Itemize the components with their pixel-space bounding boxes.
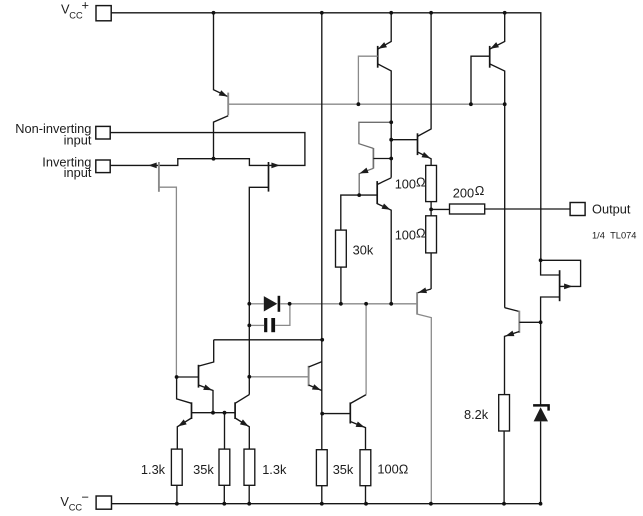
svg-text:Output: Output [592,201,631,216]
label 200ohm [453,183,485,201]
svg-text:35k: 35k [193,462,214,477]
transistor Q1 base bar [227,93,229,116]
transistor Tg base bar [234,402,236,419]
svg-text:+: + [82,0,89,13]
resistor 35k right [316,450,327,486]
wire 8.2k to bottom rail [503,431,505,504]
compensation capacitor C1 [264,318,267,332]
JFET J1 drain (grey) [159,187,177,377]
resistor R2 100ohm [426,216,437,253]
wire Td collector rail [214,339,322,341]
transistor Q1 emitter lead [214,13,228,97]
svg-text:1.3k: 1.3k [141,462,166,477]
JFET J2 gate arrow [271,163,280,169]
Non-inverting input terminal box [96,126,110,139]
svg-text:input: input [64,165,92,180]
transistor Ta emitter [359,168,373,195]
mirror base rail [192,412,236,414]
wires resistors to bottom rail [177,485,366,503]
transistor Ti base lead (grey) [249,376,308,378]
transistor Q1 collector [214,116,229,159]
resistor 8.2k [499,395,510,431]
transistor Td base bar [198,365,200,388]
transistor Q3 base bar [489,46,491,68]
output JFET J3 drain lead [541,260,560,275]
Output terminal box [570,203,585,216]
transistor Tj base lead [322,413,350,415]
bottom Vcc- rail [112,503,542,505]
JFET J1 gate arrow [148,163,157,169]
Vcc+ label [61,0,89,21]
transistor Tb base bar [376,181,378,204]
transistor Tj base bar [349,402,351,423]
diode D1 anode wire (grey) [249,303,263,305]
transistor Q6 collector [418,13,432,137]
resistor 200ohm [450,204,485,214]
wire non-inverting input wrap to J2 gate [110,133,305,166]
transistor Ta base lead [373,158,391,160]
transistor Q6 base lead [391,139,417,141]
transistor Q6 base bar [417,133,419,155]
transistor Tj collector [350,395,366,404]
transistor Ti collector [309,362,323,368]
transistor Td base lead [177,376,199,378]
svg-text:35k: 35k [333,462,354,477]
output JFET J3 channel bar [559,270,561,301]
Inverting input label [42,155,92,180]
output JFET J3 gate wrap [541,260,581,286]
svg-text:100Ω: 100Ω [377,462,408,477]
resistor 30k [336,230,347,267]
svg-text:8.2k: 8.2k [464,407,489,422]
bias rail (grey) [228,103,505,105]
transistor Tb base lead and 30k top wire [341,195,377,230]
svg-text:Ω: Ω [416,225,426,240]
transistor Tb emitter [377,204,391,304]
wire R1 to R2 [430,202,432,216]
label 100ohm upper [395,174,426,191]
svg-text:200: 200 [453,186,474,201]
wire R2 to Tc emitter [430,253,432,289]
Vcc+ terminal box [96,6,111,21]
transistor Tc collector (grey) [417,314,431,503]
transistor Ti emitter [309,385,322,391]
transistor Th collector lead [505,308,520,312]
zener D2 triangle [534,407,548,421]
transistor Tj emitter [350,422,365,450]
transistor Q2 collector [378,64,392,178]
transistor Tj collector lead (grey) [365,304,367,395]
resistor R1 100ohm [426,165,437,201]
transistor Q2 base lead (grey) [358,56,377,104]
transistor Th emitter [505,332,520,395]
transistor Q3 emitter lead [490,13,505,49]
transistor Tf emitter [177,418,191,449]
transistor Ta collector lead [359,122,391,148]
Vcc- label [60,490,89,513]
diode D1 [264,296,278,311]
Inverting input terminal box [96,160,110,173]
zener D2 top wire [540,322,542,406]
transistor Td collector [199,340,214,366]
transistor Ti base bar [308,366,310,386]
svg-text:−: − [82,490,89,505]
transistor Tc base bar [416,292,418,314]
svg-text:input: input [64,132,92,147]
transistor Tg collector [235,395,249,404]
transistor Tg emitter [235,418,249,449]
Non-inverting input label [15,121,92,148]
wire 30k to grey rail [340,267,342,304]
diode D1 cathode wire (grey) [280,303,290,305]
svg-text:100: 100 [395,228,416,243]
svg-text:CC: CC [69,503,83,513]
output JFET J3 source lead [541,297,560,322]
transistor Tb collector [377,178,391,185]
svg-text:30k: 30k [353,243,374,258]
transistor Q6 emitter [418,152,432,165]
wire 200ohm to output box [485,208,570,210]
transistor Q3 collector [490,64,505,308]
svg-text:1.3k: 1.3k [262,462,287,477]
label 100ohm lower [395,225,426,242]
grey node rail to Tc base [290,303,418,305]
svg-text:Ω: Ω [475,183,485,198]
resistor 100ohm bottom [360,450,371,486]
transistor Th base lead [519,321,540,323]
long vertical from top rail to 35k [321,13,323,450]
JFET J2 channel bar [268,162,270,192]
transistor Q2 emitter lead [378,13,391,49]
transistor Th base bar [518,311,520,333]
svg-text:100: 100 [395,177,416,192]
resistor 35k left [219,449,230,485]
transistor Ta base bar [372,148,374,169]
svg-text:1/4 TL074: 1/4 TL074 [592,231,636,241]
transistor Td emitter [199,385,214,413]
wire 35k2 top [224,413,226,449]
transistor Q3 base lead [471,56,490,104]
JFET J2 drain [249,187,268,394]
resistor 1.3k right [244,449,255,485]
zener D2 cathode bar [533,405,549,410]
zener D2 bottom wire [540,421,542,503]
transistor Q2 base bar [377,46,379,68]
wire to 200ohm [431,208,449,210]
Vcc- terminal box [96,496,111,509]
wire inverting input to J1 gate and tail [110,159,268,166]
wire Vcc+ top rail and right rail drop [111,13,541,260]
transistor Tf collector lead [177,377,192,403]
transistor Tf base bar [191,402,193,419]
resistor 1.3k left [171,449,182,485]
transistor Tc emitter arrow [417,289,431,293]
svg-text:Ω: Ω [416,174,426,189]
JFET J1 channel bar [158,162,160,192]
